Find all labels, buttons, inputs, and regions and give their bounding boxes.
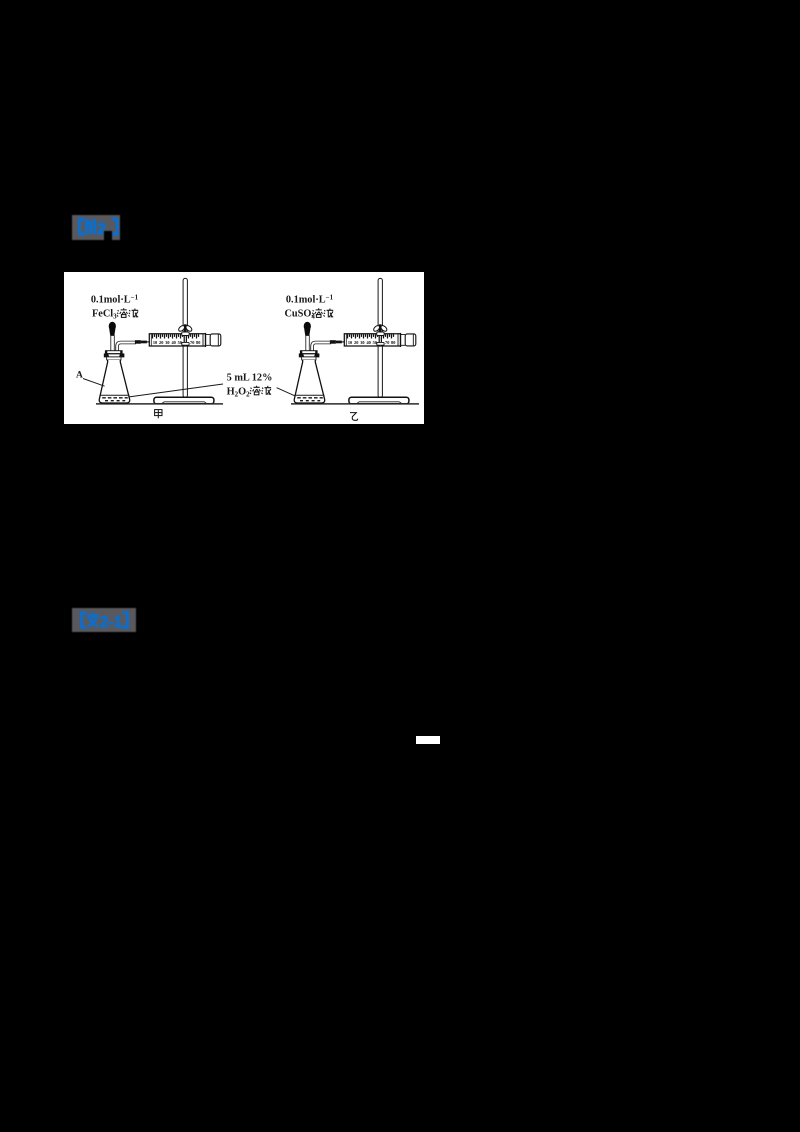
left syringe barrel [149, 334, 205, 346]
svg-text:20: 20 [354, 340, 358, 345]
left dropper tube inside stopper [111, 351, 114, 361]
right dropper bulb [304, 322, 311, 331]
right inter-tube grey block [310, 346, 313, 351]
glyph 溶 (center label) [250, 386, 261, 395]
bracket 】 [122, 613, 127, 628]
svg-text:40: 40 [366, 340, 370, 345]
left dropper bulb taper [109, 329, 115, 336]
right clamp: rod crossing barrel [379, 334, 382, 345]
right plunger [401, 335, 406, 346]
right dropper glass stem [306, 336, 310, 351]
left plunger thumb cap [210, 334, 221, 346]
svg-text:30: 30 [360, 340, 364, 345]
svg-text:H2O2: H2O2 [227, 387, 251, 399]
left stopper lower band [107, 357, 121, 360]
bracket 【 [82, 613, 87, 628]
left clamp lower jaw [182, 342, 189, 345]
right bench line [291, 403, 419, 405]
pointer line to right flask [277, 388, 295, 396]
svg-text:50: 50 [373, 340, 377, 345]
left syringe ticks [153, 334, 199, 338]
left stand rod [183, 278, 187, 397]
svg-text:CuSO4: CuSO4 [285, 309, 316, 321]
svg-text:80: 80 [391, 340, 395, 345]
glyph 甲 [155, 410, 162, 419]
left base ridge [162, 402, 206, 403]
right liquid surface [295, 394, 324, 396]
left outlet tube (bent, to syringe) [117, 343, 136, 352]
svg-text:70: 70 [190, 340, 194, 345]
right stopper lower band [302, 357, 316, 360]
left dropper tip in flask [110, 361, 113, 373]
right syringe barrel [344, 334, 400, 346]
badge [例2] [72, 215, 120, 240]
left rubber connector [135, 340, 141, 344]
left inter-tube grey block [115, 346, 118, 351]
right stand rod [378, 278, 382, 397]
bracket 】 [112, 219, 117, 234]
bracket 【 [80, 219, 85, 234]
white diagram panel [64, 272, 424, 424]
left stand base [154, 397, 214, 404]
left clamp: rod crossing barrel [184, 334, 187, 345]
svg-text:20: 20 [159, 340, 163, 345]
glyph 乙 [350, 413, 358, 421]
left stopper top disc [105, 351, 122, 354]
right base ridge [357, 402, 401, 403]
right flask body [294, 360, 324, 403]
svg-text:40: 40 [171, 340, 175, 345]
svg-text:30: 30 [165, 340, 169, 345]
left dropper glass stem [111, 336, 115, 351]
glyph 液 (left label) [129, 309, 139, 318]
left dropper bulb [109, 322, 116, 331]
glyph 液 (center label) [261, 386, 271, 395]
left liquid surface [100, 394, 129, 396]
left barrel right flange [202, 334, 204, 346]
small white rectangle [416, 736, 440, 744]
svg-text:5 mL 12%: 5 mL 12% [227, 373, 273, 384]
badge background [72, 608, 136, 632]
right stopper top disc [300, 351, 317, 354]
glyph 溶 (left label) [117, 308, 128, 317]
glyph 例 (blue blob strokes) [85, 219, 95, 235]
left clamp wing nut [184, 324, 187, 332]
left barrel left flange inner line [150, 334, 152, 346]
pointer line to left flask [129, 384, 223, 397]
svg-text:2-1: 2-1 [100, 614, 123, 631]
left liquid dashes row2 [105, 400, 125, 402]
svg-text:50: 50 [178, 340, 182, 345]
left liquid dashes row1 [102, 397, 128, 399]
svg-text:A: A [76, 371, 83, 381]
left flask rim band [104, 354, 124, 357]
right clamp wing nut [379, 324, 382, 332]
left bench line [96, 403, 223, 405]
svg-text:10: 10 [348, 340, 352, 345]
svg-text:0.1mol·L−1: 0.1mol·L−1 [286, 293, 334, 305]
left flask body [99, 360, 129, 403]
right flask rim band [299, 354, 319, 357]
right syringe ticks [348, 334, 394, 338]
label A pointer line [83, 379, 105, 387]
svg-text:10: 10 [153, 340, 157, 345]
left clamp top piece [182, 332, 189, 335]
svg-text:FeCl3: FeCl3 [92, 309, 117, 321]
glyph 变 (blue blob strokes) [87, 613, 100, 628]
right dropper tip in flask [305, 361, 308, 373]
badge [变2-1] [72, 608, 136, 632]
right rubber connector [330, 340, 336, 344]
left outlet stub below stopper [115, 360, 119, 363]
left plunger rod [206, 335, 211, 346]
glyph 液 (right label) [324, 309, 334, 318]
svg-text:80: 80 [196, 340, 200, 345]
right stand base [349, 397, 409, 404]
glyph 溶 (right label) [312, 308, 323, 317]
svg-text:70: 70 [385, 340, 389, 345]
right outlet tube [312, 343, 331, 352]
black notch [104, 231, 112, 240]
badge background [72, 215, 120, 240]
right barrel right flange [397, 334, 399, 346]
svg-text:0.1mol·L−1: 0.1mol·L−1 [91, 293, 139, 305]
